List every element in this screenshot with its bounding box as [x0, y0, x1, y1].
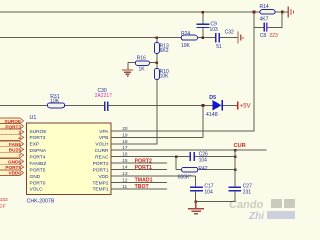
svg-text:103: 103	[210, 27, 219, 33]
svg-text:C32: C32	[225, 30, 234, 36]
resistor R24	[181, 31, 198, 49]
wire R42 row	[176, 169, 235, 171]
svg-text:FAN/BZ: FAN/BZ	[30, 161, 47, 167]
IC U1 body	[27, 115, 112, 205]
svg-text:10K: 10K	[50, 98, 60, 104]
svg-text:TEMP2: TEMP2	[93, 180, 109, 186]
svg-text:15: 15	[122, 158, 128, 164]
wire W2 second net	[0, 37, 238, 39]
ground at C32	[238, 32, 243, 44]
svg-text:U1: U1	[30, 115, 37, 121]
svg-text:VPA: VPA	[99, 129, 109, 135]
svg-text:PORT4: PORT4	[30, 155, 46, 161]
svg-text:Zhi: Zhi	[248, 211, 264, 221]
port GND8	[0, 159, 24, 165]
capacitor C8	[260, 23, 278, 39]
svg-text:PORT3: PORT3	[30, 135, 46, 141]
svg-text:11: 11	[122, 184, 127, 190]
svg-text:CURR: CURR	[95, 148, 109, 154]
svg-text:TEMP1: TEMP1	[93, 187, 109, 193]
svg-text:Cando: Cando	[229, 199, 264, 211]
svg-text:VDD: VDD	[98, 174, 109, 180]
port 7	[0, 152, 24, 158]
svg-text:600K*: 600K*	[178, 174, 192, 180]
wire W3 middle net	[0, 104, 237, 106]
svg-text:4K7: 4K7	[260, 17, 269, 23]
wire PORT2 pin15 stub	[111, 162, 167, 164]
svg-text:10K: 10K	[181, 43, 191, 49]
capacitor C26	[190, 152, 208, 164]
svg-text:C8: C8	[260, 33, 267, 39]
svg-text:SUROE: SUROE	[4, 119, 21, 124]
svg-text:PORT1: PORT1	[93, 167, 109, 173]
svg-text:BUZ6: BUZ6	[9, 148, 22, 153]
node junction on W2 at C9	[202, 36, 204, 38]
capacitor C9	[196, 12, 218, 38]
svg-text:13: 13	[122, 171, 128, 177]
svg-text:20: 20	[122, 126, 128, 132]
capacitor C32	[216, 30, 234, 50]
node junction on W1 at C9	[202, 11, 204, 13]
svg-text:2A2217: 2A2217	[95, 93, 112, 99]
svg-text:PORT9: PORT9	[5, 165, 21, 170]
port VDD0	[0, 170, 24, 176]
svg-text:51: 51	[216, 44, 222, 50]
svg-text:18: 18	[122, 139, 128, 145]
svg-text:7: 7	[18, 153, 21, 158]
svg-text:SUROE: SUROE	[30, 129, 47, 135]
svg-text:PORT5: PORT5	[30, 167, 46, 173]
svg-text:PORT2: PORT2	[93, 161, 109, 167]
ground at R14	[288, 7, 293, 18]
port PORT3	[0, 124, 24, 130]
svg-text:R42: R42	[198, 166, 207, 172]
power +5V	[238, 102, 251, 110]
svg-text:D5: D5	[209, 95, 216, 101]
svg-text:VOLH: VOLH	[95, 142, 109, 148]
svg-text:VDD0: VDD0	[8, 171, 21, 176]
resistor R16	[135, 56, 149, 73]
svg-text:R16: R16	[137, 56, 146, 62]
resistor R13	[154, 42, 169, 54]
svg-text:3: 3	[18, 130, 21, 135]
capacitor C17	[190, 184, 214, 202]
wire W1 top net	[0, 11, 288, 13]
svg-text:17: 17	[122, 145, 128, 151]
svg-text:R14: R14	[260, 4, 269, 10]
svg-text:12: 12	[122, 177, 128, 183]
diode D5	[206, 95, 222, 118]
svg-text:REAC: REAC	[95, 155, 109, 161]
resistor R14	[260, 4, 276, 23]
svg-text:PORT2: PORT2	[135, 158, 152, 164]
svg-text:K102: K102	[0, 197, 8, 203]
node junction CUR-bus	[234, 149, 237, 152]
capacitor C30	[95, 88, 112, 111]
wire C8 branch	[254, 12, 282, 28]
node junction ground link	[194, 200, 197, 203]
svg-text:6K2: 6K2	[160, 48, 169, 54]
svg-text:TBOT: TBOT	[135, 184, 150, 190]
U1 left pin names	[30, 129, 47, 193]
node junction W1-R14 right	[281, 11, 284, 14]
svg-text:EXP: EXP	[30, 142, 40, 148]
svg-text:16: 16	[122, 152, 128, 158]
svg-text:FAN5: FAN5	[9, 142, 21, 147]
resistor R42	[178, 166, 208, 180]
node junction W1-R14 left	[253, 11, 256, 14]
node junction W2 to R13 column	[156, 36, 158, 38]
svg-text:+5V: +5V	[240, 103, 251, 109]
svg-text:PORT1: PORT1	[135, 165, 152, 171]
svg-text:CUR: CUR	[234, 143, 246, 149]
wire CURR pin17	[111, 149, 266, 151]
wire right bus	[234, 150, 236, 187]
svg-text:104: 104	[204, 190, 213, 196]
svg-text:223: 223	[269, 33, 278, 39]
svg-text:19: 19	[122, 132, 128, 138]
wire tap riser to R42	[175, 157, 177, 170]
node junction R13/R10/R16	[156, 61, 159, 64]
port 4	[0, 135, 24, 141]
wire VPA pin20	[111, 130, 254, 132]
watermark	[229, 199, 295, 222]
svg-text:10K: 10K	[160, 73, 170, 79]
wire REAC pin16	[111, 156, 235, 158]
node junction W3-D5	[202, 104, 205, 107]
svg-text:231: 231	[243, 190, 252, 196]
resistor R10	[154, 68, 169, 79]
wire vertical VPA riser	[253, 12, 255, 131]
svg-text:14: 14	[122, 165, 128, 171]
ground at C17	[188, 202, 204, 214]
U1 right pin numbers	[122, 126, 128, 190]
svg-text:4: 4	[18, 136, 21, 141]
wire PORT1 pin14 stub	[111, 169, 167, 171]
U1 right pin names	[93, 129, 110, 193]
svg-text:CHK-2007B: CHK-2007B	[27, 199, 55, 205]
port 3	[0, 129, 24, 135]
svg-text:1K: 1K	[139, 67, 146, 73]
wire TMAD pin12 stub	[111, 181, 167, 183]
port BUZ6	[0, 147, 24, 153]
node junction R42-bus	[234, 168, 237, 171]
node junction REAC-R42 tap	[175, 155, 178, 158]
svg-text:PORT0: PORT0	[30, 180, 46, 186]
svg-text:104: 104	[199, 158, 208, 164]
wire R13 column	[156, 38, 158, 144]
port FAN5	[0, 141, 24, 147]
ground at R16	[122, 70, 133, 76]
capacitor C27	[229, 184, 253, 202]
wire VOLH pin18	[111, 143, 157, 145]
port PORT9	[0, 164, 24, 170]
wire VPB riser	[111, 105, 203, 137]
wire bottom ground link	[196, 201, 235, 203]
svg-text:VPB: VPB	[99, 135, 109, 141]
wire R16 link	[128, 63, 157, 70]
svg-text:3CF: 3CF	[0, 203, 6, 209]
svg-text:DSPNA: DSPNA	[30, 148, 47, 154]
svg-text:R24: R24	[181, 31, 190, 37]
svg-text:VOLC: VOLC	[30, 187, 44, 193]
wire TBOT pin11 stub	[111, 188, 167, 190]
resistor R31	[47, 94, 64, 108]
port SUROE	[0, 118, 24, 124]
svg-text:GND: GND	[30, 174, 41, 180]
svg-text:4148: 4148	[206, 112, 218, 118]
svg-text:TMAD1: TMAD1	[135, 178, 153, 184]
svg-text:PORT3: PORT3	[5, 124, 21, 129]
node junction REAC-bus	[234, 155, 237, 158]
svg-text:GND8: GND8	[8, 160, 21, 165]
wire VDD pin13 to C17	[111, 176, 196, 187]
